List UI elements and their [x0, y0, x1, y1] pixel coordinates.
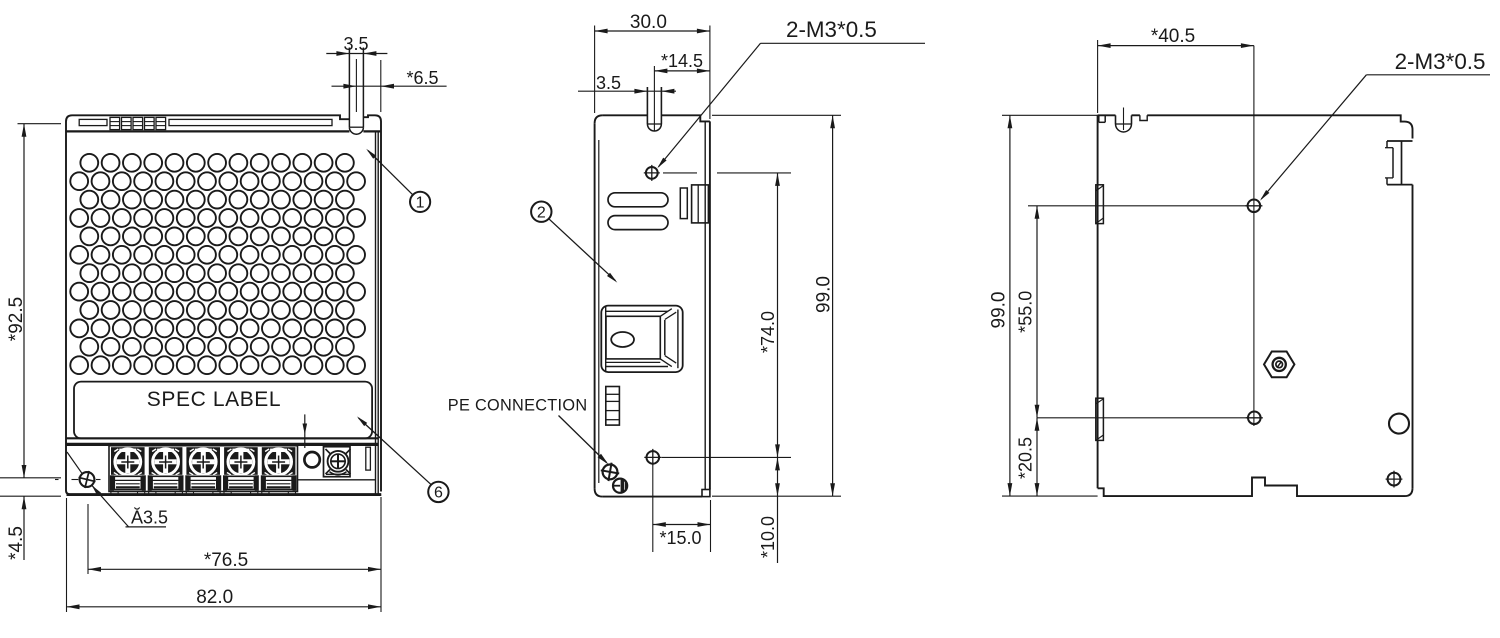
- svg-text:*20.5: *20.5: [1016, 437, 1036, 479]
- PE connection screws: [601, 463, 627, 493]
- leader diameter 3.5: [67, 452, 166, 527]
- front perforation holes: [70, 154, 365, 374]
- rear screw hole lower: [1246, 412, 1263, 425]
- rear right clip: [1385, 141, 1413, 185]
- rear extension lines: [1028, 206, 1247, 418]
- side top screw hole M3: [644, 165, 660, 181]
- label PE CONNECTION: [448, 396, 609, 464]
- callout circle 6: [357, 416, 449, 502]
- svg-text:*4.5: *4.5: [6, 526, 27, 560]
- rear top-left corner notch: [1099, 115, 1105, 122]
- terminal units: [110, 447, 297, 494]
- rear screw holes centerline: [1253, 46, 1255, 426]
- callout circle 2: [531, 202, 617, 283]
- dimension *4.5 front left: [0, 478, 61, 560]
- svg-text:*74.0: *74.0: [758, 311, 778, 353]
- front view case outline: [66, 115, 381, 494]
- label 2-M3*0.5 rear: [1260, 49, 1490, 200]
- svg-text:82.0: 82.0: [196, 587, 233, 608]
- svg-text:2-M3*0.5: 2-M3*0.5: [1395, 49, 1486, 74]
- dimension *14.5: [654, 51, 710, 73]
- front view bottom bold edge: [67, 493, 382, 496]
- svg-text:2: 2: [537, 204, 546, 221]
- front right small tab: [366, 447, 371, 470]
- dimension 3.5 front top: [326, 34, 387, 56]
- rear corner screw: [1386, 471, 1403, 488]
- front pin center extension line: [355, 59, 357, 112]
- front round hole: [304, 452, 319, 467]
- dimension 30.0: [595, 12, 710, 119]
- front top strip wide slot left: [79, 119, 107, 125]
- svg-text:3.5: 3.5: [596, 73, 621, 93]
- svg-text:*6.5: *6.5: [406, 68, 438, 88]
- dimension 99.0 rear: [989, 115, 1098, 496]
- svg-text:99.0: 99.0: [989, 292, 1010, 329]
- side bottom screw extension lines: [653, 457, 791, 552]
- svg-text:3.5: 3.5: [343, 34, 368, 54]
- rear round hole: [1389, 414, 1409, 434]
- label diameter 3.5 text: [131, 508, 168, 528]
- side fuse holder: [606, 387, 620, 426]
- dimension 3.5 side: [578, 73, 676, 94]
- svg-text:Ă3.5: Ă3.5: [131, 508, 168, 528]
- dimension *92.5 front left: [6, 124, 61, 478]
- svg-text:2-M3*0.5: 2-M3*0.5: [786, 17, 877, 42]
- rear top tab: [1116, 108, 1132, 133]
- rear hex nut potentiometer: [1264, 352, 1294, 378]
- front right section bottom line: [298, 479, 376, 481]
- svg-text:6: 6: [434, 485, 443, 502]
- rear side view outline: [1098, 115, 1413, 496]
- svg-text:*14.5: *14.5: [661, 51, 703, 71]
- terminal block outline: [109, 446, 298, 492]
- spec label box: [74, 382, 372, 439]
- svg-text:PE CONNECTION: PE CONNECTION: [448, 396, 588, 414]
- svg-text:SPEC LABEL: SPEC LABEL: [147, 388, 281, 411]
- side view bottom right foot: [702, 490, 710, 497]
- callout circle 1: [366, 149, 430, 212]
- AC inlet socket: [601, 306, 682, 373]
- svg-text:*55.0: *55.0: [1016, 291, 1036, 333]
- dimension *6.5 front: [332, 60, 447, 112]
- svg-text:*15.0: *15.0: [659, 528, 701, 548]
- rear left clip lower: [1096, 398, 1104, 440]
- dimension *15.0: [653, 500, 711, 552]
- side screw centerline: [663, 172, 791, 174]
- side view inner left line: [598, 140, 600, 483]
- front top strip long slot: [169, 119, 332, 125]
- svg-text:*40.5: *40.5: [1151, 26, 1195, 47]
- dimension *40.5: [1098, 26, 1254, 113]
- front right side wall lines: [376, 131, 379, 494]
- spec label small down arrow: [303, 414, 308, 448]
- label 2-M3*0.5 side: [657, 17, 925, 168]
- front screw centerline dashes: [55, 479, 101, 481]
- svg-text:99.0: 99.0: [813, 276, 834, 313]
- dimension 99.0 side: [712, 115, 841, 496]
- side view top pin slot: [647, 87, 661, 131]
- svg-text:*76.5: *76.5: [204, 550, 248, 571]
- front top mounting pin slot: [349, 48, 363, 135]
- svg-text:1: 1: [416, 195, 425, 212]
- dimension 82.0 front: [67, 497, 382, 612]
- front top strip bottom line: [66, 130, 381, 132]
- dimension *10.0: [758, 457, 780, 563]
- front top strip small tabs: [110, 117, 166, 129]
- dimension *20.5: [1016, 418, 1040, 496]
- spec label text: [147, 388, 281, 411]
- dimension *76.5 front: [88, 504, 381, 574]
- svg-text:*10.0: *10.0: [758, 516, 778, 558]
- front face bottom band: [66, 438, 378, 444]
- rear screw hole upper: [1245, 200, 1262, 213]
- dimension *55.0: [1016, 206, 1040, 418]
- svg-text:30.0: 30.0: [630, 12, 667, 33]
- dimension *74.0: [758, 173, 780, 458]
- front mounting screw hole bottom-left: [79, 471, 96, 488]
- front ground screw: [324, 447, 351, 477]
- svg-text:*92.5: *92.5: [6, 297, 27, 341]
- side vent slots: [608, 193, 668, 230]
- side upper clip tabs: [680, 185, 708, 223]
- side view body outline: [595, 115, 710, 496]
- side bottom screw hole M3: [644, 449, 661, 466]
- side pin center line: [653, 66, 655, 131]
- rear left clip upper: [1096, 185, 1104, 224]
